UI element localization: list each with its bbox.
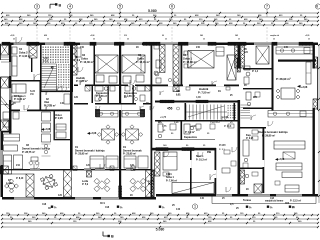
pier top x2 (2, 42, 10, 45)
left unit wall y80 (11, 80, 40, 82)
pier column x70 (71, 45, 78, 75)
sofa r2 (274, 141, 305, 149)
dining r2 (281, 88, 295, 99)
pier top x272 (272, 42, 277, 45)
pier top x114.5 (115, 42, 125, 45)
unit wall x120 (119, 43, 121, 198)
svg-text:+2,08: +2,08 (90, 35, 94, 37)
svg-text:25: 25 (203, 39, 205, 41)
svg-text:4: 4 (69, 5, 71, 9)
pier column x160 (160, 45, 166, 73)
r2 wall y107 (243, 108, 272, 110)
bath r2 low fixtures (245, 174, 249, 178)
stair landing tile grid (43, 47, 44, 48)
svg-text:25: 25 (308, 39, 310, 41)
pier column x29 (29, 45, 37, 58)
svg-text:P: 10,3 m²: P: 10,3 m² (196, 157, 207, 161)
svg-text:Soba: Soba (81, 56, 88, 60)
svg-text:17,2: 17,2 (43, 60, 48, 63)
svg-text:P: 3,9: P: 3,9 (74, 60, 81, 62)
svg-text:3: 3 (36, 5, 38, 9)
right vertical dim line (318, 44, 320, 203)
wall x190 gap (190, 160, 192, 168)
dining L1 (102, 129, 115, 140)
svg-text:4,38: 4,38 (196, 96, 201, 99)
dining L2 (126, 129, 139, 140)
svg-text:05B: 05B (207, 152, 212, 154)
svg-text:Hodnik: Hodnik (199, 87, 209, 91)
pier top x27 (27, 42, 39, 45)
svg-text:+2,08: +2,08 (301, 86, 308, 89)
wardrobe 04 (12, 47, 17, 54)
svg-text:5.080: 5.080 (156, 228, 165, 232)
sofa leftunit (4, 145, 18, 151)
axis stub lines (36, 9, 38, 13)
pier top x143 (143, 42, 160, 45)
balcony sep left y169 (2, 169, 151, 171)
wall y148 hatch (156, 148, 168, 151)
svg-text:140: 140 (60, 102, 65, 105)
small marks R1 corr (186, 87, 190, 90)
right loggia rail (317, 57, 319, 110)
r2 stairs entry door (251, 115, 256, 120)
window top x254 (254, 43, 272, 45)
svg-text:P: 12,01 m²: P: 12,01 m² (136, 60, 150, 64)
svg-text:25: 25 (238, 39, 240, 41)
dining chairs leftunit (29, 161, 34, 166)
soba2 bed left (12, 84, 26, 93)
corridor wall y84 right (148, 85, 239, 87)
left wall y110 (11, 110, 72, 112)
terrace ramp diag (1, 96, 12, 109)
svg-text:90: 90 (162, 35, 164, 37)
door 04 (34, 74, 40, 80)
central party wall (151, 43, 153, 200)
wall x237 lower (238, 100, 241, 196)
pier top x64 (64, 42, 75, 45)
wall y168 r2 left (240, 168, 264, 170)
svg-text:P: 28,90 m²: P: 28,90 m² (276, 77, 291, 81)
bottom dim line2 (2, 218, 318, 220)
svg-text:120: 120 (74, 96, 79, 99)
bath L1 fixtures (95, 86, 103, 91)
svg-text:P: 3,95: P: 3,95 (246, 138, 254, 140)
svg-text:B: B (59, 4, 62, 8)
window top x277 (277, 43, 299, 45)
stair wall y101 right (155, 101, 239, 103)
svg-text:25: 25 (127, 39, 129, 41)
svg-text:Lođa: Lođa (148, 180, 155, 183)
unit wall x120 gap (119, 104, 121, 110)
window top x80 (80, 43, 90, 45)
svg-text:vanjska zid: vanjska zid (270, 35, 279, 37)
washing machine r2 (254, 184, 262, 193)
svg-text:P: 12,30 m²: P: 12,30 m² (80, 60, 94, 64)
hodnik up marks (75, 48, 81, 57)
svg-text:210: 210 (16, 164, 21, 167)
right outer wall upper (313, 43, 315, 69)
loggia left boundary (1, 173, 27, 175)
svg-text:P: 9,43 m²: P: 9,43 m² (19, 54, 31, 58)
coffee r2 (283, 152, 295, 159)
svg-text:P: 1,4: P: 1,4 (252, 70, 259, 73)
svg-text:P: 8,10: P: 8,10 (16, 178, 24, 180)
svg-text:P: 4,9 m²: P: 4,9 m² (185, 130, 195, 134)
axis marker 5 (117, 4, 122, 9)
svg-text:+2,08: +2,08 (190, 126, 196, 128)
svg-text:Pr: Pr (270, 206, 273, 209)
top dim line4 (2, 24, 318, 26)
corridor line y139 (155, 139, 215, 141)
wc r2 fixtures (246, 92, 251, 100)
wall x237 hatch (237, 58, 240, 72)
svg-text:120: 120 (58, 194, 63, 197)
wall y148 right heavy (152, 148, 216, 151)
pier top x90 (90, 42, 96, 45)
svg-text:03: 03 (138, 53, 142, 57)
svg-text:04: 04 (183, 53, 187, 57)
svg-text:Pr: Pr (120, 206, 123, 209)
wall x181 wc (181, 121, 183, 140)
svg-text:9,81: 9,81 (176, 93, 181, 96)
loggia post x87 (87, 171, 92, 177)
top dim line2 (2, 16, 318, 18)
entry steps r2 (241, 104, 251, 106)
wall x215 lower (215, 148, 217, 194)
sofa set right low (282, 172, 302, 178)
wall x263 r2 (263, 127, 265, 193)
nightstands L2 (123, 76, 131, 83)
svg-text:Soba 1: Soba 1 (183, 56, 192, 60)
doors L units (80, 80, 85, 85)
svg-text:418: 418 (42, 203, 47, 206)
sofa L2 (124, 156, 136, 168)
left jut wall (1, 131, 11, 133)
svg-text:25: 25 (93, 39, 95, 41)
window bottom left x14 (14, 197, 34, 199)
window bottom right x276 (276, 194, 302, 196)
wc fixtures (158, 124, 163, 132)
window bottom left x101 (101, 197, 119, 199)
left unit wall x40 low (40, 80, 42, 111)
terrace furniture (3, 112, 11, 119)
bedR1 big (188, 51, 214, 69)
svg-text:Pr: Pr (249, 206, 252, 209)
central pier low (151, 170, 154, 197)
sofa L1 (90, 156, 104, 168)
left low window (1, 150, 3, 165)
axis marker 3 (34, 4, 39, 9)
svg-text:+2,08: +2,08 (222, 116, 229, 119)
svg-text:P: 23,95 m²: P: 23,95 m² (75, 152, 88, 156)
pier top x299 (299, 42, 313, 45)
svg-text:5x30: 5x30 (30, 91, 36, 93)
staircase right-center (185, 105, 187, 120)
svg-text:Lođa: Lođa (6, 182, 12, 185)
loggia dmd cluster L (98, 181, 106, 189)
inner dim line y105 (1, 104, 15, 106)
bath divider x94 (94, 44, 96, 85)
svg-text:120: 120 (130, 164, 135, 167)
top dim line1 (2, 12, 318, 14)
r2 hall rects (252, 130, 258, 134)
svg-text:345: 345 (235, 34, 238, 37)
svg-text:8: 8 (316, 5, 318, 9)
left terrace upper (0, 77, 2, 131)
axis marker 7 (264, 4, 269, 9)
window top x13.5 (14, 43, 27, 45)
svg-text:P: 2,95: P: 2,95 (55, 117, 63, 120)
vestibule door (46, 105, 51, 110)
balcony door gaps y169b (84, 168, 91, 170)
loggia pier x26 (26, 174, 34, 197)
wall x181 bedroomR1 (181, 44, 183, 86)
bottom dim line4 (2, 226, 318, 228)
svg-text:+2,05: +2,05 (305, 35, 309, 37)
balcony pier x64 (64, 170, 72, 197)
svg-text:Pr: Pr (54, 206, 57, 209)
svg-text:P: 5,9: P: 5,9 (148, 184, 155, 186)
svg-text:B: B (111, 235, 114, 239)
svg-text:1: 1 (194, 205, 196, 209)
hall marks (210, 124, 215, 129)
loggia rail left (2, 169, 151, 171)
svg-text:5: 5 (119, 5, 121, 9)
pier column x173 (173, 45, 179, 92)
svg-text:Kup.: Kup. (246, 134, 252, 137)
svg-text:P: 23,95 m²: P: 23,95 m² (123, 152, 136, 156)
stairR side wall (234, 103, 236, 120)
wall x271 (272, 43, 274, 111)
right wall sofa (306, 62, 311, 84)
wardrobeR1 (227, 55, 236, 80)
svg-text:7: 7 (266, 5, 268, 9)
svg-text:P: 29,80 m²: P: 29,80 m² (262, 133, 275, 137)
svg-text:25: 25 (47, 39, 49, 41)
party wall x70 lower (70, 92, 73, 170)
svg-text:6: 6 (171, 5, 173, 9)
svg-text:+1,75: +1,75 (160, 116, 167, 119)
r2 bath mid fixtures (246, 72, 250, 76)
svg-text:210: 210 (124, 35, 127, 37)
wardrobe diag R (172, 183, 214, 194)
bath divider x108 (108, 85, 109, 103)
svg-text:YSO 05.2: YSO 05.2 (210, 122, 221, 124)
window bottom left x75 (75, 197, 93, 199)
balcony door gaps y169 (30, 168, 40, 170)
svg-text:25: 25 (165, 39, 167, 41)
laundry wall x54 (54, 111, 55, 140)
dark cabinet bar r2 (278, 60, 316, 62)
svg-text:120: 120 (86, 164, 91, 167)
svg-text:428: 428 (44, 34, 47, 37)
svg-text:Lođa: Lođa (82, 180, 89, 183)
bottom small markers (51, 206, 53, 208)
axis marker 4 (67, 4, 72, 9)
svg-text:Pr: Pr (162, 206, 165, 209)
left outer wall low (1, 131, 4, 197)
svg-text:vanjski zid termo: vanjski zid termo (265, 200, 284, 203)
kitchen counter r2 top (276, 47, 313, 54)
svg-text:P: 5,9: P: 5,9 (82, 184, 89, 186)
closet R1 top (216, 47, 224, 56)
stair core bottom wall (40, 91, 72, 93)
laundry wall y140 (54, 139, 72, 140)
svg-text:1,75: 1,75 (162, 126, 167, 128)
pier top x228 (228, 42, 246, 45)
svg-text:30 9: 30 9 (100, 202, 105, 205)
pier top x208 (208, 42, 216, 45)
svg-text:+2,08: +2,08 (90, 132, 97, 135)
stair core wall x40 (40, 44, 42, 92)
pier column x241 (241, 45, 245, 68)
entry porch topleft (1, 44, 9, 55)
wall y120 right (155, 120, 239, 122)
kitchen counters L1 (95, 109, 100, 117)
bottom outer wall right (156, 194, 318, 197)
sobaR lower bed (163, 152, 177, 170)
stair window top (45, 43, 64, 45)
bath R0 fixture (154, 71, 158, 75)
top outer wall (2, 43, 318, 46)
svg-text:Soba: Soba (137, 56, 144, 60)
bath R1 fixtures (155, 72, 159, 76)
pier top x178.5 (179, 42, 189, 45)
svg-text:5.080: 5.080 (148, 9, 157, 13)
bottom axis circle 1 (192, 204, 197, 209)
svg-text:P: 28,75 m²: P: 28,75 m² (22, 150, 35, 154)
svg-text:P: 12,5 m²: P: 12,5 m² (290, 199, 301, 203)
bath r2 left (243, 140, 249, 156)
kup2 fixtures (184, 124, 190, 134)
left wall windows (9, 62, 11, 76)
svg-text:+2,08: +2,08 (278, 158, 285, 161)
party wall x237 (238, 43, 241, 69)
bottom dim line3 (2, 222, 318, 224)
tv shelf leftunit (4, 134, 20, 141)
svg-text:Kupaonica: Kupaonica (184, 136, 197, 139)
stairR pier (160, 100, 174, 103)
hodnik wall x92 low (92, 85, 94, 103)
svg-text:25: 25 (13, 39, 15, 41)
wall x263 gap (263, 160, 265, 167)
window bottom right x216 (216, 194, 232, 196)
svg-text:04: 04 (82, 53, 86, 57)
svg-text:456: 456 (167, 107, 173, 111)
bath walls left y103 (74, 103, 151, 105)
bedL1 big (95, 55, 118, 73)
pier r2 low (240, 170, 245, 184)
shaft box r2 (256, 46, 269, 64)
svg-text:240: 240 (80, 46, 85, 49)
doorsR1 (174, 81, 179, 86)
svg-text:P: 8,40 m²: P: 8,40 m² (14, 97, 26, 101)
svg-text:P: 30,8: P: 30,8 (224, 126, 232, 128)
tv r2 (276, 163, 302, 170)
svg-text:05 WC: 05 WC (219, 145, 226, 147)
section marker B bottom (102, 232, 104, 237)
nightstands L1 (96, 75, 104, 82)
axis marker 8 (315, 4, 320, 9)
svg-text:P: 7,50 m²: P: 7,50 m² (198, 90, 210, 94)
left wall y110 gap (20, 110, 27, 112)
svg-text:P: 4,65 m²: P: 4,65 m² (96, 94, 107, 98)
svg-text:P: 12,80 m²: P: 12,80 m² (183, 60, 197, 64)
left terrace lower (0, 166, 8, 174)
bottom dim line1 (2, 214, 318, 216)
loggia table A (38, 171, 61, 193)
axis dash verticals (119, 27, 121, 42)
svg-text:418: 418 (105, 206, 110, 209)
window top x160 (160, 43, 178, 45)
entry steps topleft (1, 56, 9, 58)
stair treads left core (42, 63, 57, 65)
svg-text:25: 25 (273, 39, 275, 41)
axis marker 6 (169, 4, 174, 9)
window top x124 (124, 43, 142, 45)
bath L2 fixtures (137, 86, 145, 91)
bedR1 nightst (184, 51, 188, 55)
svg-text:+2,05: +2,05 (10, 35, 14, 37)
kitchen strip leftunit (42, 112, 51, 121)
bath walls left y85 (74, 85, 151, 87)
wall y127 r2 (240, 127, 266, 129)
window top x188 (188, 43, 208, 45)
loggia table B (9, 183, 15, 189)
svg-text:P: 7,66 m²: P: 7,66 m² (166, 178, 177, 182)
bath divider x133 (133, 85, 134, 103)
bottom outer wall left (2, 197, 156, 200)
window bottom right x248 (248, 194, 270, 196)
corridor wall y84 gaps (168, 85, 173, 87)
svg-text:345: 345 (284, 46, 289, 49)
doors left col (24, 105, 29, 110)
rail boxes (73, 166, 77, 171)
r2 wall y88 (243, 88, 272, 89)
section marker B top (49, 4, 51, 8)
svg-text:WC: WC (158, 121, 162, 124)
pier x155 low (155, 152, 161, 176)
kitchen counters L2 (140, 109, 145, 117)
terrace edge right (212, 203, 316, 205)
pier column x235 (235, 45, 239, 68)
svg-text:140: 140 (200, 197, 205, 200)
balcony pier x146 (146, 170, 154, 197)
svg-text:Soba 2: Soba 2 (19, 50, 28, 54)
svg-text:Lift: Lift (244, 51, 248, 54)
vestibule rect (64, 94, 70, 104)
left outer wall (9, 43, 11, 134)
svg-text:240: 240 (196, 46, 201, 49)
svg-text:240: 240 (200, 34, 203, 37)
stair core wall x70 (70, 43, 73, 93)
svg-text:4,38: 4,38 (174, 121, 179, 124)
bedL2 big (122, 55, 145, 73)
wm boxes (85, 86, 90, 91)
svg-text:140: 140 (176, 208, 181, 211)
loggia pier x119 (119, 186, 122, 197)
right outer wall lower (313, 108, 315, 196)
wall x190 lower (190, 151, 192, 195)
loggia dmd cluster R (134, 181, 142, 189)
top dim line3 (2, 20, 318, 22)
svg-text:Terasa: Terasa (243, 199, 251, 202)
laundry rects (56, 124, 66, 130)
svg-text:+2,08: +2,08 (44, 128, 51, 131)
r2 wall y68 (243, 68, 272, 70)
wall x215 gap (215, 170, 217, 178)
main door swings (16, 37, 22, 43)
